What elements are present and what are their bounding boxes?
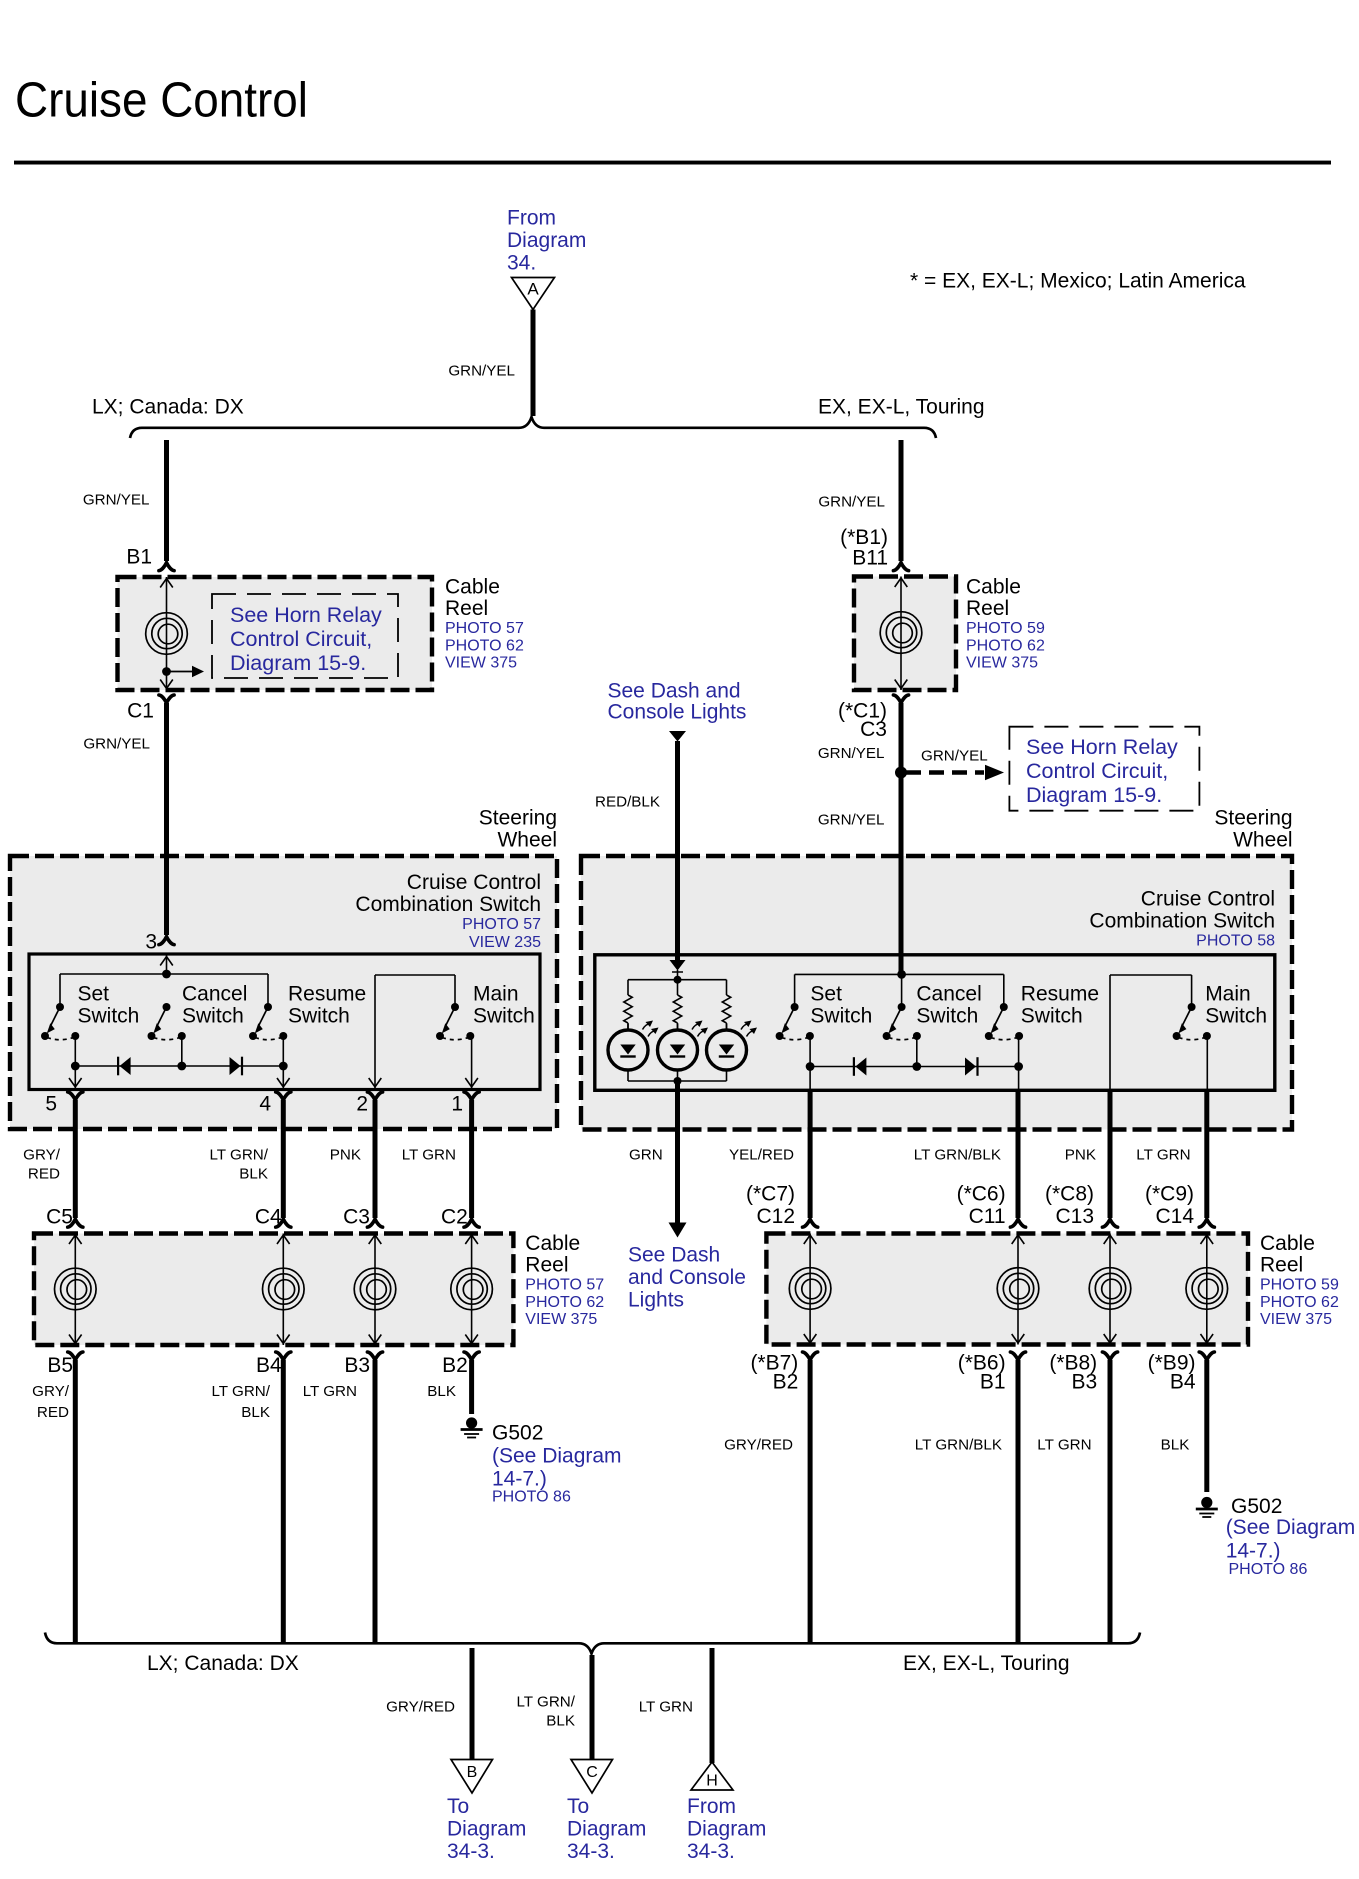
svg-text:LT GRN/: LT GRN/ [211, 1383, 270, 1400]
svg-text:VIEW 235: VIEW 235 [469, 934, 541, 951]
wire GRY/RED to triangle B [470, 1648, 475, 1760]
svg-text:PHOTO 62: PHOTO 62 [525, 1294, 604, 1311]
connector chevron B11 [893, 563, 908, 571]
wire LT GRN from triangle H [710, 1648, 715, 1763]
svg-text:LX; Canada: DX: LX; Canada: DX [92, 396, 244, 419]
svg-text:PHOTO 59: PHOTO 59 [1260, 1277, 1339, 1294]
svg-text:4: 4 [259, 1093, 271, 1116]
wire GRN/YEL from triangle A [531, 310, 536, 417]
wire GRN/YEL over right box top [899, 850, 904, 974]
svg-text:C13: C13 [1055, 1205, 1094, 1228]
diode bus (left box) [75, 1065, 283, 1067]
svg-text:VIEW 375: VIEW 375 [445, 655, 517, 672]
svg-text:2: 2 [356, 1093, 368, 1116]
svg-text:B3: B3 [344, 1354, 370, 1377]
junction pin3/bus [162, 970, 171, 979]
connector chevron reel top x=1110 (right) [1102, 1219, 1117, 1227]
connector chevron B4 (right) [1199, 1352, 1214, 1360]
pin 5 drop [74, 1066, 76, 1088]
svg-text:Reel: Reel [525, 1253, 568, 1276]
svg-text:See Horn Relay: See Horn Relay [230, 603, 382, 627]
svg-text:Reel: Reel [966, 597, 1009, 620]
resistor 1 stub [627, 980, 629, 995]
svg-text:C2: C2 [441, 1206, 468, 1229]
steering wheel dashed box (left) [10, 856, 557, 1129]
connector chevron C (reel) for pin 2 [367, 1219, 382, 1227]
resume switch (left box) [249, 1003, 287, 1040]
svg-text:C5: C5 [46, 1206, 73, 1229]
main switch feed stub [454, 975, 456, 1007]
arrowhead down pin 2 [369, 1078, 382, 1087]
svg-text:C3: C3 [860, 718, 887, 741]
svg-text:See Horn Relay: See Horn Relay [1026, 735, 1178, 759]
connector chevron B1 [159, 563, 174, 571]
wire from pin 2 to cable reel [373, 1100, 378, 1218]
svg-text:C: C [586, 1764, 598, 1781]
pin C13 line (right) [1109, 975, 1111, 1089]
wire RED/BLK over right box top [675, 850, 680, 960]
svg-text:(See Diagram: (See Diagram [492, 1445, 622, 1468]
svg-text:C4: C4 [255, 1206, 282, 1229]
svg-text:PHOTO 57: PHOTO 57 [462, 916, 541, 933]
feed stub to LED bus [677, 970, 679, 980]
svg-text:See Dash: See Dash [628, 1244, 720, 1267]
arrow to horn relay note (left) [167, 671, 194, 673]
inner dashed note box (left) [212, 594, 398, 678]
svg-text:LT GRN: LT GRN [402, 1146, 456, 1163]
svg-text:Diagram 15-9.: Diagram 15-9. [1026, 783, 1162, 807]
svg-text:and Console: and Console [628, 1266, 746, 1289]
svg-text:1: 1 [451, 1093, 463, 1116]
svg-text:Cancel: Cancel [916, 983, 981, 1006]
svg-text:B1: B1 [980, 1371, 1006, 1394]
svg-text:RED: RED [37, 1404, 69, 1421]
svg-text:YEL/RED: YEL/RED [729, 1146, 794, 1163]
connector triangle C [571, 1760, 613, 1794]
svg-text:PHOTO 57: PHOTO 57 [525, 1277, 604, 1294]
svg-text:(*C8): (*C8) [1045, 1183, 1094, 1206]
svg-text:LT GRN: LT GRN [1037, 1436, 1091, 1453]
resume right contact drop [282, 1036, 284, 1066]
svg-text:A: A [527, 280, 539, 299]
ground G502 (left) [461, 1417, 483, 1437]
svg-text:GRN/YEL: GRN/YEL [83, 735, 150, 752]
svg-text:LT GRN/: LT GRN/ [516, 1693, 575, 1710]
svg-text:14-7.): 14-7.) [1226, 1540, 1281, 1563]
set right contact drop (right) [809, 1036, 811, 1067]
LED top bus [628, 979, 727, 981]
svg-text:VIEW 375: VIEW 375 [966, 655, 1038, 672]
ground G502 (right) [1196, 1497, 1218, 1517]
cable reel box (top right) [854, 577, 956, 691]
svg-text:B4: B4 [1170, 1371, 1196, 1394]
resume switch feed stub [267, 974, 269, 1007]
arrowhead down RED/BLK feed [669, 731, 686, 742]
wire from pin 5 to cable reel [73, 1100, 78, 1218]
connector chevron reel top x=1018.0 (right) [1010, 1219, 1025, 1227]
arrowhead down RED/BLK inside box [670, 960, 686, 971]
svg-text:Cable: Cable [1260, 1232, 1315, 1255]
svg-text:PHOTO 62: PHOTO 62 [1260, 1294, 1339, 1311]
connector chevron B5 [68, 1352, 83, 1360]
svg-text:Switch: Switch [182, 1005, 244, 1028]
svg-text:Resume: Resume [1021, 983, 1099, 1006]
wire GRY/RED B5 to brace [73, 1360, 78, 1643]
svg-text:LT GRN: LT GRN [639, 1698, 693, 1715]
svg-text:VIEW 375: VIEW 375 [525, 1311, 597, 1328]
connector chevron C (reel) for pin 4 [276, 1219, 291, 1227]
connector chevron C3 [893, 695, 908, 703]
connector triangle H [691, 1762, 733, 1790]
svg-text:B3: B3 [1072, 1371, 1098, 1394]
cancel switch (left box) [148, 1003, 186, 1040]
resistor R3 (illumination LED 3) [722, 995, 730, 1023]
svg-text:Cruise Control: Cruise Control [1141, 888, 1275, 911]
set right contact drop [74, 1036, 76, 1066]
svg-text:C3: C3 [343, 1206, 370, 1229]
svg-text:GRN/YEL: GRN/YEL [818, 493, 885, 510]
wire pin x=1018.0 to cable reel (right) [1016, 1089, 1021, 1218]
cable reel coil x=810.1 (bottom right) [809, 1234, 811, 1345]
pin C12 drop [809, 1067, 811, 1090]
svg-text:G502: G502 [492, 1422, 543, 1445]
svg-text:GRN/YEL: GRN/YEL [921, 747, 988, 764]
top bus main (right box) [1110, 974, 1192, 976]
dashed arrow to horn relay note (right) [906, 770, 984, 774]
svg-text:34-3.: 34-3. [567, 1840, 615, 1863]
svg-text:Diagram: Diagram [507, 229, 586, 252]
cable reel coil x=283.3 (bottom left) [282, 1234, 284, 1346]
LED 3 (illumination) [707, 1021, 758, 1082]
cable reel coil x=1206.8 (bottom right) [1206, 1234, 1208, 1345]
svg-text:RED/BLK: RED/BLK [595, 793, 660, 810]
svg-text:G502: G502 [1231, 1495, 1282, 1518]
combination switch inner box (left) [29, 954, 540, 1090]
wire BLK right B4 to ground [1204, 1360, 1209, 1492]
inner dashed note box (right) [1009, 727, 1199, 811]
top bus right (left box) [375, 974, 455, 976]
svg-text:Cable: Cable [966, 576, 1021, 599]
diode D4 (right box, points right) [965, 1057, 978, 1076]
svg-text:Switch: Switch [78, 1005, 140, 1028]
diode bus (right box) [810, 1066, 1019, 1068]
wire from pin 4 to cable reel [281, 1100, 286, 1218]
svg-text:PHOTO 86: PHOTO 86 [492, 1489, 571, 1506]
svg-text:C14: C14 [1155, 1205, 1194, 1228]
connector chevron pin 2 [367, 1092, 382, 1100]
diode D3 (right box, points left) [854, 1057, 867, 1076]
svg-text:* = EX, EX-L; Mexico; Latin Am: * = EX, EX-L; Mexico; Latin America [910, 270, 1246, 293]
connector chevron C1 [159, 695, 174, 703]
LED 2 (illumination) [658, 1021, 709, 1082]
resistor2 to LED2 [677, 1023, 679, 1030]
connector chevron reel top x=1206.8 (right) [1199, 1219, 1214, 1227]
svg-text:14-7.): 14-7.) [492, 1468, 547, 1491]
svg-text:PHOTO 62: PHOTO 62 [445, 637, 524, 654]
diode D1 (left box, points left) [118, 1057, 131, 1076]
pin C14 drop (main right contact) [1206, 1036, 1208, 1089]
junction LED bottom bus [674, 1077, 682, 1085]
svg-text:PHOTO 62: PHOTO 62 [966, 637, 1045, 654]
arrow crossbar [672, 971, 683, 973]
svg-text:Cruise Control: Cruise Control [15, 73, 308, 128]
svg-text:Main: Main [1205, 983, 1251, 1006]
svg-text:GRN/YEL: GRN/YEL [83, 491, 150, 508]
wire pin x=810.1 to cable reel (right) [808, 1089, 813, 1218]
svg-text:Resume: Resume [288, 983, 366, 1006]
svg-text:C11: C11 [969, 1205, 1006, 1228]
resistor 3 stub [726, 980, 728, 995]
svg-text:GRN/YEL: GRN/YEL [818, 811, 885, 828]
svg-text:PNK: PNK [330, 1146, 361, 1163]
wire pin x=1110 to cable reel (right) [1108, 1089, 1113, 1218]
svg-text:GRY/: GRY/ [23, 1146, 61, 1163]
svg-text:Reel: Reel [1260, 1253, 1303, 1276]
cable reel box (bottom right) [766, 1234, 1248, 1345]
svg-text:3: 3 [145, 931, 157, 954]
svg-text:Switch: Switch [810, 1005, 872, 1028]
arrowhead down pin 1 [465, 1078, 478, 1087]
top bus (left box) [60, 973, 268, 975]
cable reel coil (top left) [166, 577, 168, 690]
connector chevron reel top x=810.1 (right) [803, 1219, 818, 1227]
svg-text:Set: Set [78, 983, 110, 1006]
resume feed stub (right) [1003, 974, 1005, 1007]
svg-text:PHOTO 57: PHOTO 57 [445, 620, 524, 637]
LED 1 (illumination) [608, 1021, 659, 1082]
top bus (right box) [795, 973, 1004, 975]
connector chevron B3 (right) [1102, 1352, 1117, 1360]
wire GRN/YEL C1 to switch pin 3 [164, 703, 169, 935]
bottom brace merge LX / EX [45, 1633, 1140, 1654]
svg-text:LT GRN/BLK: LT GRN/BLK [914, 1146, 1001, 1163]
cancel right contact drop [181, 1036, 183, 1066]
svg-text:GRY/RED: GRY/RED [386, 1698, 455, 1715]
svg-text:Wheel: Wheel [1233, 829, 1293, 852]
cable reel coil x=471.6 (bottom left) [471, 1234, 473, 1346]
cable reel coil x=1110 (bottom right) [1109, 1234, 1111, 1345]
wire LT GRN right B3 to brace [1108, 1360, 1113, 1643]
resume switch (right box) [985, 1003, 1023, 1040]
arrowhead down pin 4 [277, 1078, 290, 1087]
svg-text:Cruise Control: Cruise Control [407, 871, 541, 894]
svg-text:Switch: Switch [1205, 1005, 1267, 1028]
svg-text:Combination Switch: Combination Switch [1089, 910, 1275, 933]
wire GRN from LEDs down [675, 1081, 680, 1223]
svg-text:B1: B1 [126, 546, 152, 569]
resistor R2 (illumination LED 2) [673, 995, 681, 1023]
combination switch inner box (right) [595, 955, 1275, 1091]
wire GRN/YEL left branch [164, 440, 169, 561]
header rule [14, 161, 1331, 165]
svg-text:LT GRN: LT GRN [303, 1383, 357, 1400]
svg-text:BLK: BLK [427, 1383, 456, 1400]
diode D2 (left box, points right) [230, 1057, 243, 1076]
svg-text:EX, EX-L, Touring: EX, EX-L, Touring [818, 396, 985, 419]
svg-text:PHOTO 86: PHOTO 86 [1229, 1561, 1308, 1578]
LED bottom bus [628, 1080, 727, 1082]
junction GRN/YEL top bus (right box) [897, 970, 906, 979]
svg-text:BLK: BLK [239, 1165, 268, 1182]
svg-text:B2: B2 [442, 1354, 468, 1377]
svg-text:Diagram: Diagram [447, 1817, 526, 1840]
main switch (right box) [1173, 1003, 1211, 1040]
svg-text:LT GRN: LT GRN [1136, 1146, 1190, 1163]
resume right contact drop (right) [1018, 1036, 1020, 1067]
svg-text:GRY/RED: GRY/RED [724, 1436, 793, 1453]
svg-text:Diagram 15-9.: Diagram 15-9. [230, 651, 366, 675]
connector triangle A [512, 278, 555, 310]
cancel right contact drop (right) [916, 1036, 918, 1067]
cable reel coil x=1018.0 (bottom right) [1017, 1234, 1019, 1345]
svg-text:Steering: Steering [479, 807, 557, 830]
svg-text:Steering: Steering [1214, 807, 1292, 830]
svg-text:PHOTO 59: PHOTO 59 [966, 620, 1045, 637]
svg-text:(*C7): (*C7) [746, 1183, 795, 1206]
pin 2 line [374, 975, 376, 1088]
connector chevron C (reel) for pin 5 [68, 1219, 83, 1227]
connector chevron pin 5 [68, 1092, 83, 1100]
junction dot to horn relay (right) [895, 767, 907, 779]
svg-text:See Dash and: See Dash and [608, 680, 741, 703]
pin3 entry line [166, 955, 168, 974]
connector chevron B2 (right) [803, 1352, 818, 1360]
svg-text:Control Circuit,: Control Circuit, [1026, 759, 1168, 783]
top brace split LX / EX [130, 417, 936, 438]
wire GRY/RED right B2 to brace [808, 1360, 813, 1643]
resistor1 to LED1 [627, 1023, 629, 1030]
wire RED/BLK down into right switch box [675, 741, 680, 959]
wire BLK B2 to ground [469, 1360, 474, 1414]
wire LT GRN/BLK to triangle C [590, 1655, 595, 1760]
svg-text:(*C9): (*C9) [1145, 1183, 1194, 1206]
cable reel box (bottom left) [34, 1234, 513, 1346]
svg-text:B11: B11 [852, 547, 888, 570]
main switch (left box) [436, 1003, 474, 1040]
connector chevron pin 1 [464, 1092, 479, 1100]
svg-text:Diagram: Diagram [567, 1817, 646, 1840]
svg-text:Control Circuit,: Control Circuit, [230, 627, 372, 651]
svg-text:EX, EX-L, Touring: EX, EX-L, Touring [903, 1652, 1070, 1675]
set switch (right box) [776, 1003, 814, 1040]
svg-text:Combination Switch: Combination Switch [355, 893, 541, 916]
svg-text:5: 5 [45, 1093, 57, 1116]
svg-text:GRN/YEL: GRN/YEL [818, 745, 885, 762]
wire LT GRN/BLK B4 to brace [281, 1360, 286, 1643]
svg-text:34.: 34. [507, 251, 536, 274]
cable reel coil x=75.3 (bottom left) [74, 1234, 76, 1346]
resistor R1 (illumination LED 1) [624, 995, 632, 1023]
svg-text:C12: C12 [756, 1205, 795, 1228]
svg-text:B4: B4 [256, 1354, 282, 1377]
svg-text:To: To [447, 1795, 469, 1818]
resistor 2 stub [677, 980, 679, 995]
svg-text:Diagram: Diagram [687, 1817, 766, 1840]
steering wheel dashed box (right) [581, 856, 1292, 1130]
wire from pin 1 to cable reel [469, 1100, 474, 1218]
svg-text:B2: B2 [773, 1371, 799, 1394]
resistor3 to LED3 [726, 1023, 728, 1030]
svg-text:From: From [687, 1795, 736, 1818]
svg-text:B5: B5 [47, 1354, 73, 1377]
svg-text:Cancel: Cancel [182, 983, 247, 1006]
set switch (left box) [41, 1003, 79, 1040]
cable reel coil x=375 (bottom left) [374, 1234, 376, 1346]
svg-text:Switch: Switch [1021, 1005, 1083, 1028]
connector triangle B [451, 1760, 493, 1794]
arrowhead down pin 5 [69, 1078, 82, 1087]
svg-text:(See Diagram: (See Diagram [1226, 1516, 1356, 1539]
connector chevron B1 (right) [1010, 1352, 1025, 1360]
svg-text:Main: Main [473, 983, 519, 1006]
svg-text:H: H [706, 1773, 718, 1790]
wire GRN/YEL right branch [899, 440, 904, 561]
cable reel coil (top right) [900, 577, 902, 691]
svg-text:Switch: Switch [288, 1005, 350, 1028]
wire GRN/YEL over left box top [164, 850, 169, 935]
svg-text:(*C6): (*C6) [957, 1183, 1006, 1206]
svg-text:VIEW 375: VIEW 375 [1260, 1311, 1332, 1328]
svg-text:LX; Canada: DX: LX; Canada: DX [147, 1652, 299, 1675]
svg-text:Lights: Lights [628, 1288, 684, 1311]
main feed stub (right) [1191, 975, 1193, 1007]
svg-text:34-3.: 34-3. [687, 1840, 735, 1863]
set feed stub (right) [794, 974, 796, 1007]
svg-text:Set: Set [810, 983, 842, 1006]
pin 4 drop [282, 1066, 284, 1088]
svg-text:Reel: Reel [445, 597, 488, 620]
connector chevron pin 3 [159, 937, 174, 945]
svg-text:PHOTO 58: PHOTO 58 [1196, 933, 1275, 950]
svg-text:GRN: GRN [629, 1146, 663, 1163]
svg-text:BLK: BLK [241, 1404, 270, 1421]
svg-text:Switch: Switch [916, 1005, 978, 1028]
svg-text:C1: C1 [127, 700, 154, 723]
svg-text:B: B [467, 1764, 478, 1781]
svg-text:PNK: PNK [1065, 1146, 1096, 1163]
arrowhead up pin 3 [160, 957, 173, 966]
svg-text:To: To [567, 1795, 589, 1818]
set switch feed stub [59, 974, 61, 1007]
cancel feed stub (right) [901, 974, 903, 1007]
svg-text:GRN/YEL: GRN/YEL [448, 362, 515, 379]
junction LED top bus [674, 976, 682, 984]
svg-text:Switch: Switch [473, 1005, 535, 1028]
pin 1 drop (main right contact) [471, 1036, 473, 1088]
svg-text:BLK: BLK [546, 1712, 575, 1729]
svg-text:Cable: Cable [525, 1232, 580, 1255]
svg-text:34-3.: 34-3. [447, 1840, 495, 1863]
arrowhead down GRN to dash lights [669, 1223, 687, 1238]
svg-text:GRY/: GRY/ [32, 1383, 70, 1400]
wire LT GRN/BLK right B1 to brace [1016, 1360, 1021, 1643]
svg-text:BLK: BLK [1161, 1436, 1190, 1453]
svg-text:From: From [507, 207, 556, 230]
svg-text:RED: RED [28, 1165, 60, 1182]
connector chevron B3 [367, 1352, 382, 1360]
svg-text:Cable: Cable [445, 576, 500, 599]
svg-text:LT GRN/: LT GRN/ [209, 1146, 268, 1163]
connector chevron C (reel) for pin 1 [464, 1219, 479, 1227]
junction dot in cable reel 1 [162, 667, 171, 676]
cable reel box (top left) [118, 577, 433, 690]
svg-text:Wheel: Wheel [497, 829, 557, 852]
svg-text:Console Lights: Console Lights [608, 701, 747, 724]
connector chevron pin 4 [276, 1092, 291, 1100]
pin C11 drop [1018, 1067, 1020, 1090]
cancel switch (right box) [883, 1003, 921, 1040]
connector chevron B4 [276, 1352, 291, 1360]
